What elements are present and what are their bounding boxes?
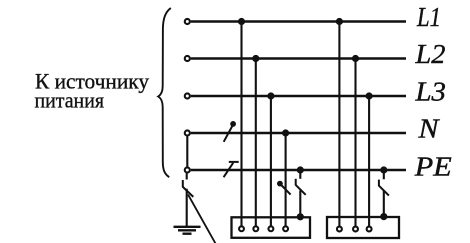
svg-text:L3: L3 [414,77,446,107]
svg-text:L1: L1 [416,2,441,32]
svg-text:L2: L2 [414,39,445,69]
svg-text:N: N [417,113,440,143]
svg-text:PE: PE [414,152,453,182]
svg-text:питания: питания [35,88,105,113]
